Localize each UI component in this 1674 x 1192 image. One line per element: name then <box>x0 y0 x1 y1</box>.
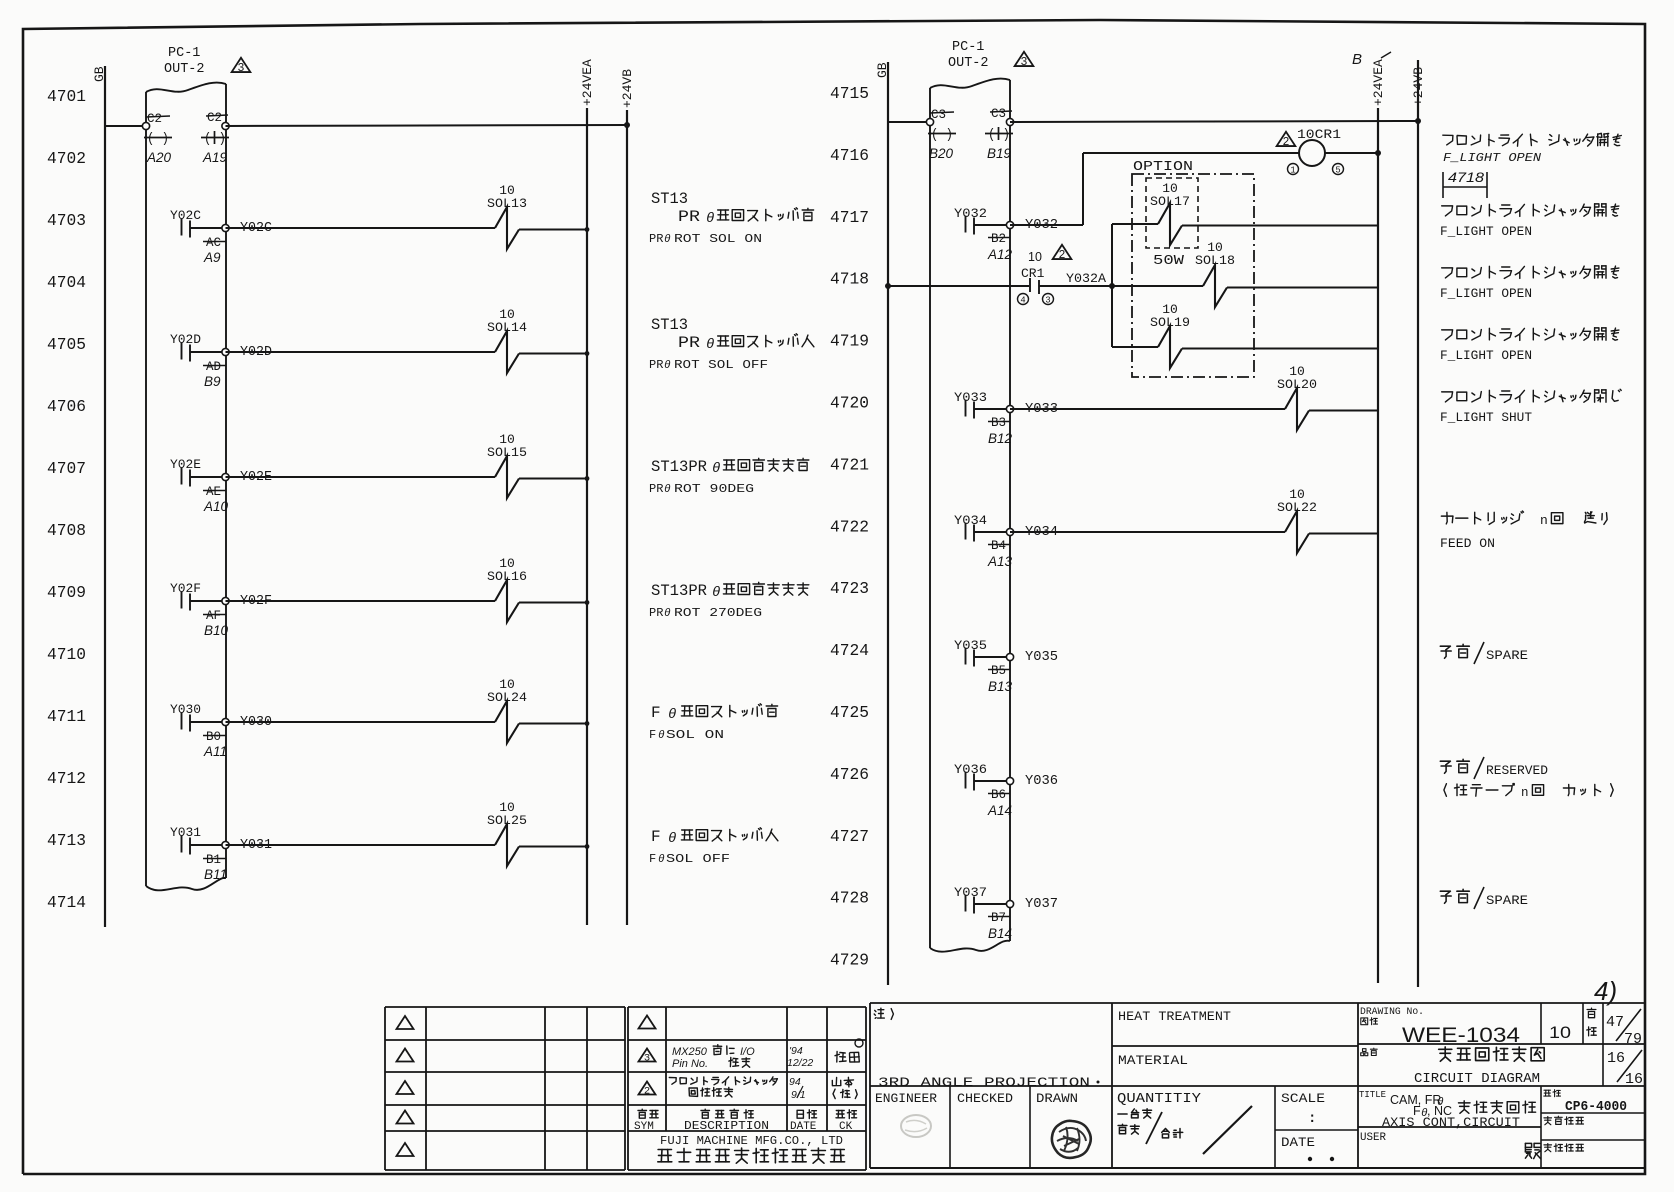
svg-text:4728: 4728 <box>830 889 869 908</box>
svg-text:Y032: Y032 <box>954 206 987 221</box>
svg-text:Y02F: Y02F <box>170 581 201 596</box>
svg-text:ROT SOL OFF: ROT SOL OFF <box>674 358 768 372</box>
svg-text:PR: PR <box>678 334 700 352</box>
node Y036 module pin <box>987 774 1058 818</box>
svg-text:A14: A14 <box>987 803 1012 818</box>
svg-text:94: 94 <box>789 1076 801 1088</box>
svg-text:3: 3 <box>1045 296 1050 306</box>
svg-text:θ: θ <box>664 608 671 620</box>
svg-text:4716: 4716 <box>830 146 869 165</box>
revision triangle 3 left header <box>232 58 251 75</box>
svg-text:B11: B11 <box>204 867 227 882</box>
svg-text:C3: C3 <box>991 107 1006 121</box>
contact Y033 <box>954 390 1006 419</box>
svg-text:10: 10 <box>1549 1023 1571 1042</box>
node Y034 module pin <box>987 525 1058 569</box>
svg-text:79: 79 <box>1624 1031 1642 1048</box>
drawing number block <box>1358 1003 1645 1168</box>
wire Y032 branch up to CR1 coil rung <box>1083 153 1299 225</box>
wire Y032A to solenoid SOL18 <box>1112 285 1203 287</box>
wire to solenoid SOL17 <box>1112 223 1158 225</box>
svg-text:2: 2 <box>1059 249 1066 262</box>
comment rung 4722 FEED ON <box>1440 511 1607 551</box>
node Y02E module pin <box>203 470 272 514</box>
solenoid SOL19 <box>1150 302 1190 368</box>
projection note cell <box>870 1003 1112 1168</box>
svg-text:SYM: SYM <box>634 1121 654 1133</box>
comment rung 4719 F_LIGHT OPEN <box>1440 328 1619 363</box>
module PC-1 OUT-2 left <box>146 46 226 890</box>
svg-text:AXIS CONT,CIRCUIT: AXIS CONT,CIRCUIT <box>1382 1115 1520 1130</box>
title block cell <box>1358 1086 1645 1168</box>
contact Y030 <box>170 702 222 732</box>
svg-text:A12: A12 <box>987 247 1013 262</box>
solenoid SOL22 <box>1277 487 1317 553</box>
contact Y02C <box>170 208 222 238</box>
wire rung 4715 C3 to +24VB <box>1010 118 1421 124</box>
svg-text:4714: 4714 <box>47 893 86 912</box>
svg-text:2: 2 <box>1283 136 1290 149</box>
node Y037 module pin <box>988 897 1058 941</box>
svg-text:4726: 4726 <box>830 765 869 784</box>
svg-text:C2: C2 <box>207 111 222 125</box>
left rung number column 4701-4714 <box>47 87 86 912</box>
svg-text:4720: 4720 <box>830 394 869 413</box>
wire solenoid SOL24 to +24VEA <box>519 721 589 726</box>
svg-text:FUJI MACHINE MFG.CO., LTD: FUJI MACHINE MFG.CO., LTD <box>660 1134 843 1148</box>
wire rung Y031 to solenoid SOL25 <box>226 844 496 846</box>
svg-text:4): 4) <box>1594 976 1617 1006</box>
svg-text:USER: USER <box>1360 1132 1386 1144</box>
svg-text:n: n <box>1540 513 1548 528</box>
bus GB right rail <box>875 62 890 985</box>
svg-text:+24VB: +24VB <box>620 69 635 108</box>
wire SOL17 to +24VEA <box>1182 225 1378 227</box>
contact Y037 <box>954 885 1006 914</box>
svg-text:4711: 4711 <box>47 707 86 726</box>
engineer checked drawn row <box>870 1086 1645 1168</box>
svg-text:4721: 4721 <box>830 455 869 474</box>
svg-text:4703: 4703 <box>47 211 86 230</box>
svg-text:Y034: Y034 <box>954 513 987 528</box>
user block cell <box>1360 1132 1645 1159</box>
bus +24VEA left-half rail <box>580 59 595 925</box>
svg-text:FEED ON: FEED ON <box>1440 537 1495 551</box>
wire branch to solenoid SOL19 <box>1112 346 1158 348</box>
svg-text:50W: 50W <box>1153 254 1185 269</box>
wire rung Y02C to solenoid SOL13 <box>226 227 496 229</box>
svg-text:F_LIGHT SHUT: F_LIGHT SHUT <box>1440 411 1533 425</box>
comment rung 4703 ST13 PR ROT SOL ON <box>649 190 814 246</box>
label 50W <box>1153 254 1185 269</box>
svg-text:B13: B13 <box>988 679 1013 694</box>
svg-text:3: 3 <box>238 62 245 75</box>
comment rung 4713 F SOL OFF <box>649 828 778 866</box>
comment rung 4720 F_LIGHT SHUT <box>1440 389 1621 425</box>
svg-text:CIRCUIT DIAGRAM: CIRCUIT DIAGRAM <box>1414 1071 1540 1087</box>
terminal C3- pin B20 <box>926 108 956 161</box>
solenoid SOL16 <box>487 556 527 622</box>
svg-text:SCALE: SCALE <box>1281 1091 1325 1106</box>
right rung number column 4715-4729 <box>830 84 869 970</box>
svg-text:B10: B10 <box>204 623 229 638</box>
svg-text:B4: B4 <box>991 539 1006 553</box>
solenoid SOL14 <box>487 307 527 373</box>
svg-text:AE: AE <box>206 485 221 499</box>
svg-text:4: 4 <box>1020 296 1025 306</box>
svg-text:4713: 4713 <box>47 831 86 850</box>
svg-text:θ: θ <box>668 831 676 847</box>
svg-text:Y036: Y036 <box>954 762 987 777</box>
svg-text:ENGINEER: ENGINEER <box>875 1091 937 1106</box>
svg-text:4724: 4724 <box>830 641 869 660</box>
wire branch vertical SOL17-SOL19 <box>1111 224 1113 347</box>
svg-text:4704: 4704 <box>47 273 86 292</box>
wire rung 4717 Y032 to branch <box>1010 224 1083 226</box>
svg-text:MATERIAL: MATERIAL <box>1118 1053 1188 1068</box>
svg-text:PR: PR <box>649 606 663 620</box>
part name block <box>1358 1044 1645 1088</box>
svg-text:C2: C2 <box>147 112 162 126</box>
svg-text:( ): ( ) <box>147 132 169 147</box>
svg-text:16: 16 <box>1607 1050 1625 1067</box>
svg-text:Y030: Y030 <box>170 702 201 717</box>
contact Y031 <box>170 825 222 855</box>
svg-text:4723: 4723 <box>830 579 869 598</box>
svg-text:4712: 4712 <box>47 769 86 788</box>
svg-text:DRAWING No.: DRAWING No. <box>1360 1007 1424 1018</box>
svg-text:n: n <box>1521 786 1529 800</box>
svg-text:GB: GB <box>92 66 107 82</box>
quantity cell <box>1117 1086 1275 1168</box>
svg-text:PC-1: PC-1 <box>952 40 984 55</box>
svg-text:F: F <box>651 828 661 846</box>
svg-text:Y037: Y037 <box>954 885 987 900</box>
svg-text:Y035: Y035 <box>1025 650 1058 665</box>
contact Y02E <box>170 457 222 487</box>
contact Y034 <box>954 513 1006 542</box>
svg-text:2: 2 <box>644 1086 650 1098</box>
svg-text:Y035: Y035 <box>954 638 987 653</box>
node Y031 module pin <box>203 838 272 882</box>
svg-text:4710: 4710 <box>47 645 86 664</box>
svg-text:B9: B9 <box>204 374 221 389</box>
wire rung Y034 to solenoid SOL22 <box>1010 531 1285 533</box>
svg-text:Y02D: Y02D <box>170 332 201 347</box>
svg-text:Y037: Y037 <box>1025 897 1058 912</box>
svg-text:4729: 4729 <box>830 951 869 970</box>
contact Y036 <box>954 762 1006 791</box>
comment rung 4728 SPARE <box>1440 887 1528 909</box>
wire rung 4718 GB to CR1 contact <box>885 283 1029 289</box>
svg-text:B19: B19 <box>987 146 1012 161</box>
svg-text:'94: '94 <box>789 1045 803 1057</box>
svg-text:Y032A: Y032A <box>1066 271 1106 286</box>
svg-text:A20: A20 <box>146 150 172 165</box>
relay coil 10CR1 <box>1277 127 1344 176</box>
svg-text:10: 10 <box>1028 250 1042 264</box>
svg-text:4707: 4707 <box>47 459 86 478</box>
svg-text:Y02C: Y02C <box>170 208 201 223</box>
svg-text::: : <box>1308 1111 1316 1127</box>
svg-text:F_LIGHT OPEN: F_LIGHT OPEN <box>1440 225 1532 239</box>
svg-text:OPTION: OPTION <box>1133 160 1193 175</box>
solenoid SOL24 <box>487 677 527 743</box>
svg-text:4722: 4722 <box>830 517 869 536</box>
svg-text:θ: θ <box>706 337 714 353</box>
svg-text:θ: θ <box>712 461 720 477</box>
svg-text:CHECKED: CHECKED <box>957 1091 1013 1106</box>
svg-text:DATE: DATE <box>790 1121 817 1133</box>
svg-text:4701: 4701 <box>47 87 86 106</box>
svg-text:θ: θ <box>658 730 665 742</box>
svg-text:I/O: I/O <box>740 1046 755 1058</box>
bus GB left rail <box>92 66 107 927</box>
svg-text:QUANTITIY: QUANTITIY <box>1117 1091 1202 1107</box>
svg-text:F: F <box>649 728 656 742</box>
svg-text:47: 47 <box>1606 1014 1624 1031</box>
svg-text:θ: θ <box>712 585 720 601</box>
svg-text:F: F <box>651 704 661 722</box>
svg-text:1: 1 <box>1290 166 1295 176</box>
svg-text:ROT 270DEG: ROT 270DEG <box>674 606 762 620</box>
node Y02D module pin <box>203 345 272 389</box>
svg-text:( ): ( ) <box>931 128 953 143</box>
comment rung 4717 F_LIGHT OPEN <box>1440 204 1619 239</box>
heat treatment cell <box>1112 1003 1645 1168</box>
engineer faint stamp <box>901 1115 931 1137</box>
svg-text:WEE-1034: WEE-1034 <box>1402 1024 1520 1047</box>
svg-text:SPARE: SPARE <box>1486 649 1528 663</box>
svg-text:16: 16 <box>1625 1071 1643 1088</box>
comment rung 4709 ST13 PR ROT 270DEG <box>649 582 809 620</box>
svg-text:4702: 4702 <box>47 149 86 168</box>
svg-text:F_LIGHT OPEN: F_LIGHT OPEN <box>1440 287 1532 301</box>
wire rung Y02D to solenoid SOL14 <box>226 351 496 353</box>
contact 10CR1 pins 4-3 <box>1018 245 1072 306</box>
comment rung 4724 SPARE <box>1440 642 1528 664</box>
svg-text:PR: PR <box>649 358 663 372</box>
comment rung 4718 F_LIGHT OPEN <box>1440 266 1619 301</box>
svg-text:Y033: Y033 <box>954 390 987 405</box>
svg-text:ROT SOL ON: ROT SOL ON <box>674 232 762 246</box>
svg-text:TITLE: TITLE <box>1359 1089 1386 1100</box>
svg-text:θ: θ <box>664 484 671 496</box>
svg-text:3RD ANGLE PROJECTION: 3RD ANGLE PROJECTION <box>878 1075 1090 1090</box>
svg-text:θ: θ <box>658 854 665 866</box>
wire rung 4701 C2 to +24VB <box>226 125 628 126</box>
solenoid SOL20 <box>1277 364 1317 430</box>
solenoid SOL15 <box>487 432 527 498</box>
comment rung 4707 ST13 PR ROT 90DEG <box>649 458 809 496</box>
bus +24VB right-half rail <box>1411 60 1426 987</box>
svg-text:A19: A19 <box>202 150 228 165</box>
svg-text:ST13PR: ST13PR <box>651 582 707 600</box>
svg-text:B20: B20 <box>929 146 954 161</box>
comment rung 4716 F_LIGHT OPEN handwritten <box>1443 133 1622 165</box>
wire rung Y02E to solenoid SOL15 <box>226 476 496 478</box>
svg-text:B: B <box>1352 51 1362 68</box>
svg-text:PR: PR <box>649 232 663 246</box>
reference mark 4718 handwritten <box>1443 170 1487 198</box>
wire rung 4715 GB to C3- <box>888 121 930 123</box>
svg-text:ST13: ST13 <box>651 190 688 208</box>
svg-text:OUT-2: OUT-2 <box>948 56 989 71</box>
bus +24VEA right-half rail <box>1352 51 1391 983</box>
solenoid SOL17 <box>1150 181 1190 245</box>
svg-text:Y031: Y031 <box>170 825 201 840</box>
svg-text:CR1: CR1 <box>1021 266 1045 281</box>
wire rung Y02F to solenoid SOL16 <box>226 600 496 602</box>
svg-text:+24VEA: +24VEA <box>1371 59 1386 106</box>
svg-text:A10: A10 <box>203 499 229 514</box>
contact Y02F <box>170 581 222 611</box>
solenoid SOL18 <box>1195 240 1235 307</box>
wire solenoid SOL22 to +24VEA <box>1309 533 1378 535</box>
svg-text:+24VB: +24VB <box>1411 67 1426 106</box>
solenoid SOL13 <box>487 183 527 249</box>
node Y02F module pin <box>203 594 272 638</box>
svg-text:+24VEA: +24VEA <box>580 59 595 106</box>
wire CR1 coil to +24VEA <box>1325 150 1381 156</box>
svg-text:OUT-2: OUT-2 <box>164 62 205 77</box>
svg-text:θ: θ <box>664 234 671 246</box>
svg-text:C3: C3 <box>931 108 946 122</box>
svg-text:θ: θ <box>668 707 676 723</box>
svg-text:A9: A9 <box>203 250 221 265</box>
comment rung 4705 ST13 PR ROT SOL OFF <box>649 316 814 372</box>
svg-text:F: F <box>649 852 656 866</box>
revision triangle 3 right header <box>1015 52 1034 69</box>
junction at +24VB rung 4701 <box>624 122 630 128</box>
contact Y035 <box>954 638 1006 667</box>
svg-text:A11: A11 <box>203 744 227 759</box>
svg-text:AF: AF <box>206 609 221 623</box>
svg-text:PC-1: PC-1 <box>168 46 200 61</box>
svg-text:A13: A13 <box>987 554 1013 569</box>
bus +24VB left-half rail <box>620 69 635 925</box>
svg-text:3: 3 <box>1021 56 1028 69</box>
svg-text:B0: B0 <box>206 730 221 744</box>
svg-text:B7: B7 <box>991 911 1006 925</box>
svg-text:ROT 90DEG: ROT 90DEG <box>674 482 754 496</box>
svg-text:F_LIGHT OPEN: F_LIGHT OPEN <box>1443 151 1542 165</box>
svg-text:B6: B6 <box>991 788 1006 802</box>
svg-text:PR: PR <box>649 482 663 496</box>
svg-text:10CR1: 10CR1 <box>1297 127 1341 142</box>
wire rung Y033 to solenoid SOL20 <box>1010 408 1285 410</box>
svg-text:B3: B3 <box>991 416 1006 430</box>
contact Y032 <box>954 206 1006 235</box>
module PC-1 OUT-2 right <box>930 40 1010 952</box>
node Y032A junction <box>1109 283 1115 289</box>
wire solenoid SOL20 to +24VEA <box>1309 410 1378 412</box>
svg-text:GB: GB <box>875 62 890 78</box>
terminal C2- pin A20 <box>142 112 172 165</box>
handwritten page mark 4) <box>1594 976 1617 1006</box>
wire solenoid SOL15 to +24VEA <box>519 476 589 481</box>
OPTION group box <box>1132 160 1254 377</box>
svg-text:5: 5 <box>1335 166 1340 176</box>
svg-text:θ: θ <box>664 360 671 372</box>
solenoid SOL25 <box>487 800 527 866</box>
node Y02C module pin <box>203 221 272 265</box>
node Y030 module pin <box>203 715 272 759</box>
svg-text:12/22: 12/22 <box>787 1057 813 1069</box>
terminal C2 pin A19 <box>201 111 229 165</box>
svg-text:Pin No.: Pin No. <box>672 1058 708 1070</box>
node Y032 module pin <box>987 218 1058 262</box>
svg-text:4706: 4706 <box>47 397 86 416</box>
svg-text:4708: 4708 <box>47 521 86 540</box>
scale and date cell <box>1275 1091 1358 1161</box>
svg-text:B1: B1 <box>206 853 221 867</box>
svg-text:4715: 4715 <box>830 84 869 103</box>
wire solenoid SOL13 to +24VEA <box>519 227 589 232</box>
svg-text:B14: B14 <box>988 926 1012 941</box>
node Y035 module pin <box>988 650 1058 694</box>
svg-text:DATE: DATE <box>1281 1135 1315 1150</box>
wire rung Y030 to solenoid SOL24 <box>226 721 496 723</box>
svg-text:CK: CK <box>839 1121 853 1133</box>
svg-text:4717: 4717 <box>830 208 869 227</box>
svg-text:θ: θ <box>706 211 714 227</box>
revision table left <box>385 1007 625 1170</box>
revision table right with entries <box>628 1007 866 1170</box>
svg-text:B2: B2 <box>991 232 1006 246</box>
contact Y02D <box>170 332 222 362</box>
svg-text:F_LIGHT OPEN: F_LIGHT OPEN <box>1440 349 1532 363</box>
svg-text:MX250: MX250 <box>672 1046 708 1058</box>
svg-text:3: 3 <box>644 1053 650 1065</box>
svg-text:Y02E: Y02E <box>170 457 201 472</box>
svg-text:RESERVED: RESERVED <box>1486 764 1548 778</box>
wire solenoid SOL25 to +24VEA <box>519 844 589 849</box>
svg-text:HEAT TREATMENT: HEAT TREATMENT <box>1118 1009 1231 1024</box>
node Y033 module pin <box>988 402 1058 446</box>
svg-text:ST13: ST13 <box>651 316 688 334</box>
wire rung 4701 GB to C2- <box>105 125 146 127</box>
svg-text:PR: PR <box>678 208 700 226</box>
svg-text:B12: B12 <box>988 431 1013 446</box>
svg-text:4719: 4719 <box>830 332 869 351</box>
svg-text:AC: AC <box>206 236 221 250</box>
svg-text:4705: 4705 <box>47 335 86 354</box>
svg-text:SOL ON: SOL ON <box>666 728 724 742</box>
svg-text:4727: 4727 <box>830 827 869 846</box>
svg-text:4718: 4718 <box>830 270 869 289</box>
svg-text:DESCRIPTION: DESCRIPTION <box>684 1120 769 1133</box>
wire SOL18 to +24VEA <box>1227 287 1378 289</box>
svg-text:SOL OFF: SOL OFF <box>666 852 730 866</box>
svg-text:Y036: Y036 <box>1025 774 1058 789</box>
comment rung 4711 F SOL ON <box>649 704 778 742</box>
wire SOL19 to +24VEA <box>1182 348 1378 350</box>
svg-text:4718: 4718 <box>1448 170 1485 185</box>
terminal C3 pin B19 <box>985 107 1014 161</box>
svg-text:AD: AD <box>206 360 221 374</box>
wire solenoid SOL16 to +24VEA <box>519 600 589 605</box>
wire solenoid SOL14 to +24VEA <box>519 351 589 356</box>
svg-text:DRAWN: DRAWN <box>1036 1091 1078 1106</box>
inner dashed box SOL17 <box>1146 178 1198 248</box>
drawn stamp hanko <box>1052 1121 1091 1158</box>
svg-text:4709: 4709 <box>47 583 86 602</box>
svg-text:4725: 4725 <box>830 703 869 722</box>
comment rung 4726 RESERVED <box>1440 757 1613 800</box>
svg-text:ST13PR: ST13PR <box>651 458 707 476</box>
svg-text:SPARE: SPARE <box>1486 894 1528 908</box>
